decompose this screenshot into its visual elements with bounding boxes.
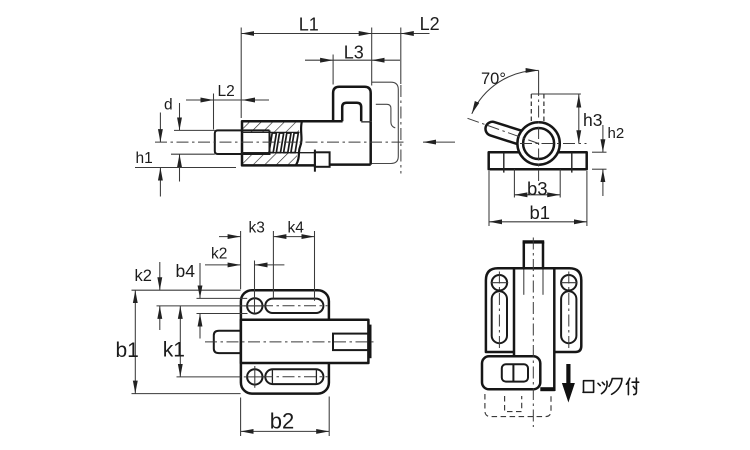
mounting plate	[241, 290, 329, 393]
plate top edge across column	[498, 267, 569, 270]
plunger pin A	[215, 130, 270, 154]
svg-text:L3: L3	[344, 43, 364, 63]
phantom dash-dot end line	[400, 85, 402, 174]
ring outer	[517, 122, 559, 164]
svg-text:h3: h3	[583, 110, 602, 130]
lock tab	[315, 152, 330, 167]
ext line knob-right	[371, 28, 373, 86]
svg-text:k3: k3	[249, 220, 265, 237]
dims view A	[135, 14, 440, 196]
ext line body-left	[240, 28, 242, 119]
dims view C	[116, 220, 330, 437]
svg-text:h1: h1	[136, 150, 153, 167]
svg-text:k2: k2	[211, 246, 227, 263]
lower screw hole	[247, 369, 262, 384]
k2 top dim	[205, 264, 241, 266]
knob neck inner rect	[333, 334, 368, 351]
b1 dim	[134, 290, 136, 393]
knob lower part	[330, 121, 371, 164]
lock direction arrow	[566, 364, 570, 385]
hatch top band	[243, 122, 299, 133]
svg-text:L1: L1	[299, 15, 319, 35]
b1 ext lines	[488, 171, 490, 226]
svg-text:L2: L2	[420, 14, 440, 34]
svg-text:b1: b1	[530, 202, 551, 223]
b3 ext lines	[513, 169, 515, 197]
b3 dim	[514, 194, 560, 196]
text lock (ロック付)	[583, 378, 639, 395]
plate hole lines	[503, 152, 505, 172]
svg-text:b3: b3	[527, 178, 548, 199]
ext lines top	[240, 231, 242, 289]
h2 ticks	[592, 151, 607, 153]
phantom U-notch	[376, 104, 396, 128]
plate front	[486, 268, 581, 352]
L3 dim	[305, 59, 333, 61]
k3k4 dim	[219, 236, 241, 238]
h3 dim	[578, 95, 580, 144]
lower slot	[265, 369, 323, 384]
left ref lines	[132, 289, 241, 291]
lever	[485, 122, 540, 150]
svg-text:d: d	[164, 97, 173, 114]
pin (plan)	[214, 331, 241, 353]
knob U-notch	[342, 103, 361, 121]
phantom pulled position outline	[372, 82, 398, 163]
h2 dim	[602, 125, 604, 152]
svg-text:k4: k4	[288, 220, 305, 237]
centerline A	[155, 141, 406, 143]
body top edge at knob joint	[326, 120, 343, 123]
body housing B1	[242, 121, 330, 165]
stem	[524, 242, 543, 269]
L1 dim	[241, 33, 372, 35]
direction arrow	[423, 141, 455, 143]
slot centerlines	[498, 272, 500, 350]
left screw circle	[492, 275, 507, 290]
ext line phantom-right	[400, 28, 402, 85]
d dim	[174, 129, 215, 131]
base plate	[489, 152, 587, 169]
stem hidden lines	[530, 94, 532, 124]
h3 top ref line	[531, 93, 581, 95]
right screw circle	[561, 275, 576, 290]
svg-text:L2: L2	[218, 83, 235, 100]
k1 dim	[179, 306, 181, 377]
centerline C	[205, 341, 375, 343]
ghost inner U	[505, 396, 522, 412]
ring inner	[523, 128, 554, 159]
svg-text:b1: b1	[116, 339, 139, 362]
lock button	[502, 364, 528, 381]
svg-text:b2: b2	[270, 409, 294, 434]
70 deg arc	[472, 70, 539, 113]
end bulge	[368, 325, 371, 359]
b1 dim	[489, 221, 587, 223]
stem hidden continuation	[523, 268, 525, 295]
upper screw hole	[247, 298, 262, 313]
lock box	[482, 356, 540, 389]
body block	[241, 320, 369, 363]
ext line knob-left	[332, 55, 334, 85]
L2 top arrow	[401, 33, 430, 35]
svg-text:70°: 70°	[481, 70, 506, 88]
svg-text:h2: h2	[608, 125, 625, 142]
knob upper part	[333, 87, 371, 121]
L2 left dim	[213, 94, 215, 130]
b4 dim	[199, 263, 201, 298]
ring horiz centerline	[520, 143, 587, 145]
right slot	[561, 291, 576, 343]
center axis	[532, 238, 534, 428]
spring coils	[269, 133, 298, 153]
hatch bottom band	[243, 153, 297, 165]
left slot	[492, 291, 507, 343]
vertical centerline	[538, 70, 540, 94]
ghost hidden outline	[485, 394, 551, 417]
h1 dim	[135, 167, 236, 169]
svg-text:b4: b4	[176, 261, 196, 281]
svg-text:k2: k2	[135, 267, 152, 285]
upper slot	[265, 299, 323, 313]
column slide	[514, 268, 554, 389]
lever axis centerline	[468, 118, 539, 143]
k2 left dim	[159, 262, 161, 290]
break line (wavy)	[296, 121, 302, 165]
b2 ext lines	[240, 398, 242, 437]
lock pin	[314, 150, 316, 172]
svg-text:k1: k1	[163, 339, 185, 362]
b2 dim	[241, 430, 330, 432]
